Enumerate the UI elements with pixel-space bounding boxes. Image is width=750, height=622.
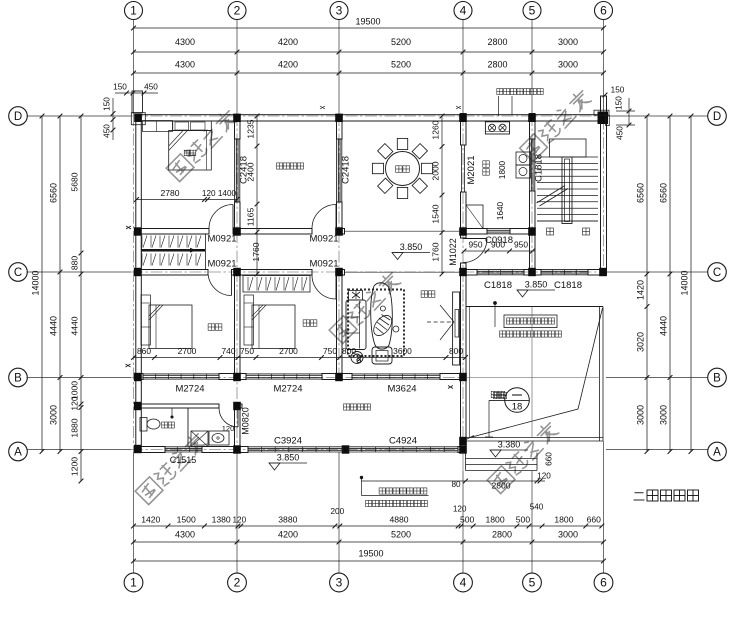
door M0921 multifunction <box>335 205 337 229</box>
svg-text:M0921: M0921 <box>207 234 236 245</box>
svg-text:C: C <box>14 267 22 279</box>
svg-text:900: 900 <box>491 240 505 250</box>
svg-text:3: 3 <box>336 4 343 18</box>
svg-text:1760: 1760 <box>251 242 261 261</box>
window C3924 <box>248 446 343 448</box>
column blocks <box>233 227 241 235</box>
svg-text:2700: 2700 <box>279 346 298 356</box>
svg-text:1: 1 <box>130 576 137 590</box>
wall axis 5 (kitchen/stairs) with C1818 gap <box>530 114 536 140</box>
bedroom dim line y357 <box>134 357 466 359</box>
terrace outline <box>466 306 603 308</box>
svg-text:740: 740 <box>222 346 236 356</box>
stair top landing rect <box>550 139 587 157</box>
watermark top-right <box>520 88 594 162</box>
bathroom label leader <box>171 408 173 416</box>
svg-text:M2021: M2021 <box>466 155 477 184</box>
door M0921 bedroom3 <box>335 275 337 299</box>
svg-text:4880: 4880 <box>389 515 408 525</box>
svg-text:2700: 2700 <box>178 346 197 356</box>
window C2418 axis2 <box>234 139 236 202</box>
svg-text:3000: 3000 <box>49 405 59 425</box>
svg-text:1800: 1800 <box>485 515 504 525</box>
bathroom label <box>162 422 168 428</box>
svg-text:18: 18 <box>512 402 523 413</box>
closet divider wall west corridor <box>141 249 205 252</box>
watermark center <box>329 270 403 344</box>
svg-text:4300: 4300 <box>175 60 195 70</box>
watermark top-left <box>166 108 240 182</box>
stair break line <box>537 186 566 204</box>
bathroom top wall with door gap <box>136 404 219 408</box>
svg-text:4440: 4440 <box>49 316 59 336</box>
svg-text:120: 120 <box>222 424 235 433</box>
svg-text:5200: 5200 <box>391 60 411 70</box>
watermark bottom-left <box>135 431 209 505</box>
svg-text:1760: 1760 <box>431 242 441 261</box>
svg-text:450: 450 <box>144 83 158 92</box>
svg-text:5680: 5680 <box>70 172 80 191</box>
svg-text:800: 800 <box>449 346 463 356</box>
wall axis 2 between bedrooms <box>235 275 241 374</box>
svg-text:750: 750 <box>323 346 337 356</box>
bedroom1 label <box>184 150 190 156</box>
bed bedroom1 <box>169 131 212 171</box>
svg-text:C4924: C4924 <box>389 436 417 447</box>
bed bedroom3 <box>244 295 254 345</box>
svg-text:4300: 4300 <box>175 530 195 540</box>
small k mark top axis4 <box>456 106 461 109</box>
dining table <box>386 152 420 186</box>
glazed door M2724 west <box>143 373 219 375</box>
window C4924 <box>348 446 458 448</box>
wall axis C east part with C1818 window gaps <box>461 270 478 276</box>
svg-text:540: 540 <box>530 503 544 512</box>
svg-text:200: 200 <box>331 507 345 516</box>
svg-text:1: 1 <box>130 4 137 18</box>
axis bubbles right D C B A <box>708 107 727 126</box>
entrance steps dimension <box>362 480 546 482</box>
svg-text:3.850: 3.850 <box>277 453 300 463</box>
round stool with swirl <box>351 352 363 364</box>
terrace inner edge line <box>469 307 471 438</box>
svg-text:D: D <box>713 111 721 123</box>
svg-text:5200: 5200 <box>391 37 411 47</box>
top-left small dims 150/450 <box>115 92 158 94</box>
svg-text:14000: 14000 <box>31 270 41 295</box>
axis 4 thin line through steps <box>462 453 464 472</box>
exterior wall left (axis 1) <box>136 115 142 453</box>
small k mark top axis3 <box>320 106 325 109</box>
entrance steps <box>466 458 538 460</box>
svg-text:C3924: C3924 <box>274 436 302 447</box>
svg-text:M2724: M2724 <box>175 384 204 395</box>
bathroom shower <box>191 431 208 447</box>
svg-text:19500: 19500 <box>355 17 380 27</box>
door M0921 bedroom1 <box>232 205 234 229</box>
svg-text:B: B <box>713 373 721 385</box>
axis centerlines through walls <box>133 114 135 452</box>
axis bubbles bottom 1-6 <box>124 573 143 592</box>
stair center rail <box>562 157 572 224</box>
svg-text:3.380: 3.380 <box>498 440 521 450</box>
left dimension chains <box>41 116 43 452</box>
svg-text:120: 120 <box>233 516 247 525</box>
svg-text:3880: 3880 <box>278 515 297 525</box>
chaise longue <box>371 283 393 349</box>
multifunction room label <box>277 163 283 169</box>
indoor balcony label <box>344 404 350 410</box>
svg-text:500: 500 <box>460 515 475 525</box>
dining room label <box>396 166 403 173</box>
svg-text:C1515: C1515 <box>170 455 197 465</box>
svg-text:3600: 3600 <box>393 346 412 356</box>
axis bubbles left D C B A <box>9 107 28 126</box>
exhaust note <box>497 89 503 95</box>
svg-text:80: 80 <box>451 480 461 489</box>
door M1022 kitchen passage <box>463 238 487 240</box>
svg-text:4200: 4200 <box>278 530 298 540</box>
bathroom toilet <box>140 418 147 432</box>
axis line grid verticals <box>133 20 135 115</box>
bedroom3 label <box>303 320 310 327</box>
svg-text:C1818: C1818 <box>534 154 545 182</box>
svg-text:A: A <box>14 447 22 459</box>
tv sight lines <box>440 305 454 322</box>
canopy note box upper <box>504 315 557 328</box>
glazed door M3624 <box>352 373 440 375</box>
svg-text:14000: 14000 <box>680 270 690 295</box>
svg-text:4440: 4440 <box>70 316 80 335</box>
svg-text:2800: 2800 <box>492 530 512 540</box>
svg-text:C1818: C1818 <box>554 280 582 291</box>
svg-text:150: 150 <box>103 97 112 111</box>
living room end table <box>349 290 363 300</box>
svg-text:M0921: M0921 <box>207 259 236 270</box>
wall axis 3 bedroom/living <box>337 275 343 374</box>
glazed door M2724 mid <box>246 373 322 375</box>
wall axis 4 lower segment (living east wall / M1022 gap below) <box>461 263 467 453</box>
svg-text:120: 120 <box>453 505 467 514</box>
svg-text:450: 450 <box>103 124 112 138</box>
wall axis 4 upper segment (dining/kitchen) with M2021 gap <box>461 114 467 146</box>
corridor vertical dims x257 <box>256 116 258 274</box>
svg-text:1420: 1420 <box>141 515 160 525</box>
svg-text:4440: 4440 <box>659 316 669 336</box>
svg-text:660: 660 <box>587 515 602 525</box>
right dimension chains <box>646 116 648 452</box>
svg-text:950: 950 <box>469 240 483 250</box>
window C0918 kitchen <box>487 228 510 230</box>
svg-text:A: A <box>713 447 721 459</box>
svg-text:1800: 1800 <box>498 160 507 179</box>
small k mark left wall at B <box>126 364 131 367</box>
svg-text:3.850: 3.850 <box>525 280 548 290</box>
stair treads <box>537 156 598 158</box>
svg-text:150: 150 <box>611 86 625 95</box>
svg-text:3020: 3020 <box>636 332 646 352</box>
svg-text:M0921: M0921 <box>309 259 338 270</box>
exterior wall top (axis D) <box>136 115 607 121</box>
window C1515 <box>165 446 202 448</box>
svg-text:4200: 4200 <box>278 37 298 47</box>
svg-text:150: 150 <box>113 83 127 92</box>
wall axis C west part with door gaps <box>136 270 208 276</box>
svg-text:3000: 3000 <box>558 60 578 70</box>
svg-text:860: 860 <box>137 346 151 356</box>
svg-text:450: 450 <box>616 126 625 140</box>
small k mark left wall <box>126 226 131 229</box>
svg-text:2400: 2400 <box>246 162 256 181</box>
window C1818 axis5 wall <box>529 139 531 191</box>
svg-text:4: 4 <box>460 4 467 18</box>
svg-text:3000: 3000 <box>558 530 578 540</box>
axis line grid horizontals <box>27 115 132 117</box>
wall axis B with M2724/M3624 glazed door gaps <box>136 374 143 380</box>
canopy note leader dot <box>494 302 497 305</box>
watermark bottom-center <box>487 420 561 494</box>
svg-text:B: B <box>14 373 22 385</box>
svg-text:5: 5 <box>529 576 536 590</box>
bed bedroom2 <box>141 295 151 345</box>
svg-text:5: 5 <box>529 4 536 18</box>
svg-text:120: 120 <box>537 472 551 481</box>
windows C1818 on axis C <box>477 269 524 271</box>
door M0820 bathroom <box>237 408 239 427</box>
svg-text:C1818: C1818 <box>484 280 512 291</box>
svg-text:6560: 6560 <box>49 183 59 203</box>
footstool table <box>372 347 392 364</box>
svg-text:C2418: C2418 <box>341 156 352 184</box>
living room label <box>421 291 428 298</box>
wall axis 3 upper with C2418 gap <box>337 119 343 139</box>
wall axis A with window gaps C1515/C3924/C4924 <box>136 447 165 453</box>
top dimension lines <box>134 27 604 29</box>
svg-text:3000: 3000 <box>558 37 578 47</box>
corridor wall y=231 with door gaps M0921 <box>136 229 209 235</box>
title: second floor plan <box>635 492 644 494</box>
kitchen range <box>485 122 509 134</box>
axis bubbles top 1-6 <box>125 2 143 20</box>
svg-text:3000: 3000 <box>636 405 646 425</box>
svg-text:1420: 1420 <box>636 280 646 300</box>
window C2418 axis3 <box>336 139 338 202</box>
svg-text:6560: 6560 <box>659 183 669 203</box>
sliding door M2021 axis4 <box>461 145 463 192</box>
svg-text:4200: 4200 <box>278 60 298 70</box>
svg-text:2800: 2800 <box>487 37 507 47</box>
svg-text:6: 6 <box>600 4 607 18</box>
svg-text:3.850: 3.850 <box>400 242 423 252</box>
svg-text:2000: 2000 <box>431 161 441 180</box>
svg-text:3: 3 <box>336 576 343 590</box>
stair down label <box>547 228 554 235</box>
canopy leader polyline <box>470 308 603 438</box>
kitchen label <box>483 161 490 168</box>
svg-text:M3624: M3624 <box>387 384 416 395</box>
svg-text:1500: 1500 <box>177 515 196 525</box>
canopy note lower <box>360 476 363 479</box>
bedroom1 dim 2780/120 1400 <box>137 199 238 201</box>
svg-text:C: C <box>713 267 721 279</box>
west corridor closet <box>141 234 205 270</box>
bed bedroom1 bedside cabinet <box>143 121 173 132</box>
svg-text:2800: 2800 <box>491 481 510 491</box>
bathroom partition <box>187 408 189 447</box>
entrance bubble 18 <box>505 388 530 413</box>
axis B thin line across terrace <box>466 377 600 379</box>
svg-text:800: 800 <box>342 346 356 356</box>
svg-text:1165: 1165 <box>246 208 256 227</box>
entrance label <box>493 392 499 398</box>
svg-text:1540: 1540 <box>431 204 441 223</box>
bathroom basin <box>209 431 229 445</box>
svg-text:1800: 1800 <box>554 515 573 525</box>
axis 5 thin line across terrace <box>531 307 533 437</box>
bedroom3 closet <box>243 276 310 293</box>
svg-text:120 1400: 120 1400 <box>202 189 237 198</box>
svg-text:2780: 2780 <box>160 188 179 198</box>
svg-text:1380: 1380 <box>212 515 231 525</box>
svg-text:750: 750 <box>240 346 254 356</box>
exterior wall right (axis 6) with parapet above D <box>601 96 607 275</box>
dining/living boundary thin line <box>345 230 461 232</box>
wall axis 2 upper with C2418 gap <box>235 119 241 139</box>
kitchen counter <box>466 205 483 229</box>
svg-text:M0820: M0820 <box>241 407 251 435</box>
svg-text:500: 500 <box>516 515 531 525</box>
bedroom2 label <box>208 324 215 331</box>
kitchen sinks <box>516 152 531 165</box>
bed bedroom1 headboard <box>173 121 212 131</box>
living room rug <box>348 290 404 357</box>
svg-text:1200: 1200 <box>70 457 80 476</box>
svg-text:1260: 1260 <box>431 120 441 139</box>
svg-text:4: 4 <box>460 576 467 590</box>
svg-text:6560: 6560 <box>636 183 646 203</box>
svg-text:6: 6 <box>600 576 607 590</box>
bathroom east wall (axis 2) <box>235 408 241 447</box>
top-left pier above axis D <box>132 91 143 113</box>
svg-text:5200: 5200 <box>391 530 411 540</box>
svg-text:M0921: M0921 <box>309 234 338 245</box>
tv cabinet on east wall <box>453 292 460 365</box>
svg-text:4300: 4300 <box>175 37 195 47</box>
svg-text:M2724: M2724 <box>273 384 302 395</box>
kitchen bottom wall with C0918 gap <box>461 229 488 235</box>
svg-text:950: 950 <box>514 240 528 250</box>
svg-text:120: 120 <box>70 396 80 411</box>
corridor/living boundary thin line <box>345 271 461 273</box>
svg-text:2: 2 <box>234 4 241 18</box>
svg-text:19500: 19500 <box>358 549 383 559</box>
svg-text:660: 660 <box>545 452 554 466</box>
small k mark near M2724 <box>448 386 453 389</box>
living room sofa <box>346 300 366 350</box>
svg-text:880: 880 <box>70 256 80 271</box>
svg-text:D: D <box>14 111 22 123</box>
entrance leader <box>488 400 490 437</box>
door M0921 bedroom2 <box>231 272 233 296</box>
svg-text:2: 2 <box>234 576 241 590</box>
dining vertical dims x442 <box>441 116 443 274</box>
bottom dimension lines <box>134 525 602 527</box>
svg-text:1640: 1640 <box>496 201 505 220</box>
svg-text:3000: 3000 <box>659 405 669 425</box>
stair up label <box>583 228 590 235</box>
svg-text:2800: 2800 <box>487 60 507 70</box>
svg-text:1880: 1880 <box>70 418 80 437</box>
svg-text:1235: 1235 <box>246 119 256 138</box>
svg-text:150: 150 <box>615 96 624 110</box>
svg-text:M1022: M1022 <box>448 238 458 266</box>
